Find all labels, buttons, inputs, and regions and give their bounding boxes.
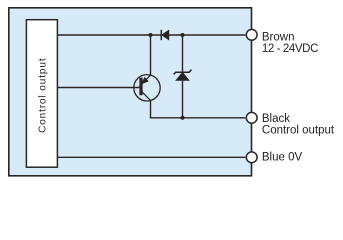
- svg-text:Black: Black: [262, 113, 290, 125]
- terminal: Black: [246, 112, 257, 123]
- wire: base lead: [57, 87, 140, 89]
- terminal: Blue: [246, 152, 257, 163]
- zener diode ZD1 (cathode up): [174, 70, 192, 81]
- terminal: Brown: [246, 29, 257, 40]
- wire: emitter branch vertical: [150, 35, 152, 75]
- node: junction dot right on top rail: [181, 33, 185, 37]
- svg-text:12 - 24VDC: 12 - 24VDC: [262, 43, 318, 55]
- svg-text:Control output: Control output: [37, 57, 48, 132]
- wire: bottom rail (0V): [57, 156, 245, 158]
- wire: collector to output line: [151, 100, 246, 118]
- control output block: [26, 20, 57, 168]
- svg-text:Blue 0V: Blue 0V: [262, 152, 303, 164]
- circuit enclosure (blue box): [9, 8, 252, 176]
- wire: top rail (+V): [57, 34, 245, 36]
- node: junction dot left on top rail: [149, 33, 153, 37]
- transistor Q1 (PNP): [134, 75, 160, 101]
- diode D1 (reverse protection, cathode left): [161, 30, 169, 40]
- wire: zener branch vertical: [182, 35, 184, 118]
- node: junction dot on output line: [181, 116, 185, 120]
- svg-text:Brown: Brown: [262, 31, 295, 43]
- svg-text:Control output: Control output: [262, 124, 335, 136]
